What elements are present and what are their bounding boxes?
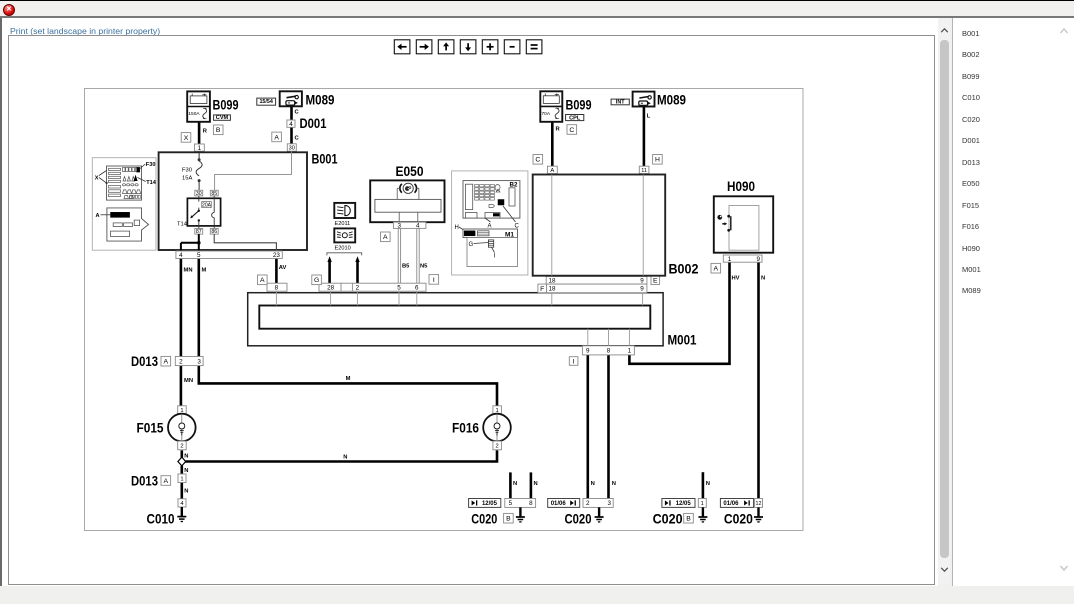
svg-text:28: 28	[327, 284, 335, 291]
svg-text:F015: F015	[137, 421, 164, 436]
svg-text:E2011: E2011	[335, 221, 351, 227]
svg-text:B099: B099	[213, 98, 239, 113]
svg-text:4: 4	[289, 121, 293, 128]
svg-text:H: H	[655, 157, 660, 164]
svg-text:A: A	[96, 213, 100, 219]
svg-text:R: R	[556, 127, 561, 133]
svg-text:9: 9	[640, 286, 644, 293]
svg-text:C020: C020	[653, 512, 683, 527]
svg-text:6: 6	[415, 284, 419, 291]
svg-text:12/05: 12/05	[482, 501, 498, 507]
svg-text:8: 8	[275, 284, 279, 291]
svg-text:C020: C020	[471, 512, 497, 527]
svg-text:9: 9	[586, 348, 590, 355]
svg-text:C020: C020	[724, 512, 753, 527]
svg-text:C020: C020	[565, 512, 592, 527]
svg-text:1: 1	[198, 145, 202, 152]
svg-text:N5: N5	[420, 264, 428, 270]
svg-text:N: N	[513, 481, 517, 487]
svg-text:X: X	[184, 135, 189, 142]
svg-text:12: 12	[756, 501, 762, 507]
svg-text:D013: D013	[131, 354, 158, 369]
svg-text:20A: 20A	[202, 203, 212, 209]
svg-text:A: A	[260, 277, 265, 284]
svg-text:N: N	[534, 481, 538, 487]
svg-text:F: F	[540, 286, 544, 293]
svg-text:2: 2	[356, 284, 360, 291]
svg-text:M001: M001	[668, 333, 697, 348]
svg-text:T14: T14	[177, 222, 188, 228]
svg-text:B: B	[506, 516, 511, 523]
svg-text:1: 1	[701, 501, 704, 507]
svg-text:F30: F30	[146, 162, 156, 168]
svg-text:A: A	[164, 478, 169, 485]
svg-text:CPL: CPL	[569, 116, 581, 122]
svg-text:CVM: CVM	[216, 115, 229, 121]
svg-text:R: R	[203, 129, 208, 135]
svg-text:N: N	[184, 489, 188, 495]
svg-text:2: 2	[586, 500, 590, 507]
svg-text:11: 11	[641, 168, 647, 174]
svg-text:B099: B099	[566, 98, 592, 113]
svg-text:N: N	[761, 276, 765, 282]
svg-text:30: 30	[289, 146, 295, 152]
svg-text:C: C	[295, 136, 300, 142]
svg-text:INT: INT	[616, 100, 625, 106]
svg-text:B: B	[686, 516, 691, 523]
svg-text:A: A	[714, 266, 719, 273]
svg-text:3: 3	[197, 358, 201, 365]
svg-text:18: 18	[548, 286, 556, 293]
svg-text:D001: D001	[300, 116, 327, 131]
svg-text:AV: AV	[279, 265, 287, 271]
svg-text:G: G	[469, 242, 474, 248]
svg-text:L: L	[647, 114, 651, 120]
svg-text:12/05: 12/05	[676, 501, 692, 507]
svg-text:A: A	[164, 359, 169, 366]
svg-text:18: 18	[548, 278, 556, 285]
svg-text:N: N	[612, 481, 616, 487]
svg-text:I: I	[573, 358, 575, 365]
svg-text:C: C	[535, 157, 540, 164]
svg-text:H090: H090	[727, 179, 755, 194]
svg-text:N: N	[184, 453, 188, 459]
svg-text:E2010: E2010	[335, 245, 351, 251]
svg-text:5: 5	[197, 252, 201, 259]
svg-text:MN: MN	[184, 268, 193, 274]
svg-text:G: G	[314, 277, 319, 284]
svg-text:E050: E050	[396, 164, 424, 179]
svg-text:9: 9	[640, 278, 644, 285]
svg-text:H: H	[455, 225, 459, 231]
svg-text:HV: HV	[732, 276, 740, 282]
svg-text:01/06: 01/06	[723, 501, 739, 507]
svg-text:N: N	[706, 481, 710, 487]
svg-text:E: E	[653, 278, 658, 285]
svg-text:1: 1	[728, 256, 732, 263]
svg-text:D013: D013	[131, 474, 158, 489]
svg-text:15A: 15A	[182, 176, 192, 182]
svg-text:9: 9	[756, 256, 760, 263]
svg-text:B: B	[216, 127, 221, 134]
svg-text:I: I	[433, 277, 435, 284]
svg-text:T14: T14	[146, 180, 157, 186]
svg-text:2: 2	[179, 358, 183, 365]
svg-text:01/06: 01/06	[551, 501, 567, 507]
svg-text:5: 5	[397, 284, 401, 291]
svg-text:5: 5	[509, 500, 513, 507]
svg-text:B2: B2	[510, 182, 518, 189]
svg-text:B5: B5	[402, 264, 410, 270]
svg-text:8: 8	[607, 348, 611, 355]
svg-text:C: C	[569, 127, 574, 134]
svg-text:1: 1	[628, 348, 632, 355]
svg-text:M089: M089	[306, 93, 335, 108]
svg-text:A: A	[274, 134, 279, 141]
svg-text:M: M	[346, 376, 351, 382]
svg-text:M089: M089	[657, 93, 686, 108]
svg-text:4: 4	[179, 252, 183, 259]
svg-text:23: 23	[273, 252, 281, 259]
svg-text:A: A	[550, 168, 554, 174]
svg-text:MN: MN	[184, 378, 193, 384]
svg-text:C: C	[295, 110, 300, 116]
svg-text:N: N	[591, 481, 595, 487]
svg-text:N: N	[343, 454, 347, 460]
svg-text:1: 1	[180, 476, 183, 482]
svg-text:2: 2	[180, 444, 183, 450]
svg-text:B001: B001	[312, 152, 338, 167]
svg-text:70A: 70A	[542, 111, 551, 117]
svg-text:C010: C010	[147, 512, 175, 527]
svg-text:B002: B002	[669, 262, 699, 277]
svg-text:3: 3	[607, 500, 611, 507]
svg-text:15/54: 15/54	[259, 99, 273, 105]
svg-text:A: A	[383, 234, 388, 241]
svg-text:8: 8	[529, 500, 533, 507]
svg-text:X: X	[95, 175, 99, 181]
svg-text:150A: 150A	[188, 111, 200, 117]
svg-text:N: N	[184, 468, 188, 474]
svg-text:F016: F016	[452, 421, 479, 436]
svg-text:M: M	[202, 268, 207, 274]
svg-text:2: 2	[496, 444, 499, 450]
svg-text:F30: F30	[182, 168, 192, 174]
svg-text:M1: M1	[505, 231, 514, 238]
